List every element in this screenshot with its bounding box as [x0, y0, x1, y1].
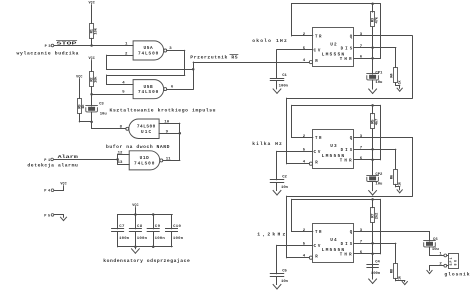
svg-text:74LS00: 74LS00	[138, 90, 159, 95]
svg-text:TR: TR	[315, 36, 322, 40]
svg-text:10u: 10u	[100, 113, 108, 117]
svg-text:CV: CV	[314, 50, 321, 54]
svg-text:10u: 10u	[375, 183, 383, 187]
svg-text:Ksztaltowanie krotkiego impuls: Ksztaltowanie krotkiego impulsu	[110, 108, 216, 114]
svg-text:11: 11	[166, 158, 171, 162]
svg-text:okolo 1Hz: okolo 1Hz	[252, 38, 287, 44]
svg-text:CV: CV	[314, 151, 321, 155]
svg-text:LM555N: LM555N	[322, 153, 345, 159]
svg-text:100n: 100n	[279, 84, 289, 88]
svg-text:TR: TR	[315, 137, 322, 141]
svg-text:1k: 1k	[81, 104, 86, 109]
svg-text:STOP: STOP	[57, 42, 78, 47]
svg-text:100n: 100n	[137, 237, 148, 241]
svg-text:THR: THR	[340, 58, 352, 62]
svg-text:74LS00: 74LS00	[134, 161, 155, 166]
svg-text:47k: 47k	[375, 16, 380, 23]
svg-text:10n: 10n	[281, 186, 289, 190]
svg-text:CP2: CP2	[375, 173, 383, 177]
svg-text:10u: 10u	[375, 81, 383, 85]
svg-text:glosnik: glosnik	[444, 271, 469, 277]
svg-text:C8: C8	[137, 225, 143, 229]
svg-text:bufor na dwoch NAND: bufor na dwoch NAND	[106, 144, 170, 150]
svg-text:wylaczanie budzika: wylaczanie budzika	[17, 50, 79, 56]
svg-text:C3: C3	[99, 103, 104, 107]
svg-text:74LS00: 74LS00	[137, 125, 156, 130]
svg-text:Przerzutnik RS: Przerzutnik RS	[190, 55, 237, 61]
svg-text:DIS: DIS	[341, 48, 353, 52]
svg-text:C4: C4	[375, 261, 380, 265]
svg-text:U2: U2	[330, 42, 337, 47]
svg-text:C5: C5	[282, 270, 287, 274]
svg-text:10k: 10k	[94, 27, 99, 34]
svg-text:kilka Hz: kilka Hz	[252, 141, 282, 147]
svg-text:R8: R8	[390, 268, 394, 273]
svg-text:U5A: U5A	[144, 46, 154, 51]
svg-text:2k2: 2k2	[375, 212, 380, 219]
svg-text:U4: U4	[330, 238, 337, 243]
svg-text:DIS: DIS	[341, 149, 353, 153]
svg-text:P1: P1	[44, 159, 50, 163]
svg-text:C1: C1	[282, 74, 287, 78]
svg-text:10k: 10k	[94, 76, 99, 83]
svg-text:SP1: SP1	[449, 257, 453, 265]
svg-text:4k7: 4k7	[375, 118, 380, 125]
svg-text:8R: 8R	[454, 260, 458, 265]
svg-text:R4: R4	[390, 73, 394, 78]
svg-text:74LS00: 74LS00	[138, 52, 159, 57]
svg-text:100n: 100n	[119, 237, 130, 241]
svg-text:C10: C10	[173, 225, 181, 229]
svg-text:LM555N: LM555N	[322, 52, 345, 58]
svg-text:R6: R6	[390, 174, 394, 179]
svg-text:10u: 10u	[432, 248, 440, 252]
svg-text:LM555N: LM555N	[322, 247, 345, 253]
svg-text:100n: 100n	[371, 272, 381, 276]
svg-text:C9: C9	[155, 225, 161, 229]
svg-text:Alarm: Alarm	[58, 155, 79, 160]
svg-text:C7: C7	[119, 225, 125, 229]
svg-text:100n: 100n	[155, 237, 166, 241]
svg-text:P4: P4	[44, 190, 51, 194]
svg-text:U1C: U1C	[141, 130, 151, 135]
svg-text:P5: P5	[44, 214, 50, 218]
svg-text:10n: 10n	[281, 280, 289, 284]
svg-text:THR: THR	[340, 254, 352, 258]
svg-text:C6: C6	[433, 238, 438, 242]
svg-text:THR: THR	[340, 160, 352, 164]
svg-text:C2: C2	[282, 176, 287, 180]
svg-text:detekcja alarmu: detekcja alarmu	[27, 163, 78, 169]
svg-text:100n: 100n	[173, 237, 184, 241]
svg-text:P3: P3	[45, 45, 51, 49]
svg-text:U3: U3	[330, 144, 337, 149]
svg-text:CP1: CP1	[375, 71, 383, 75]
svg-text:DIS: DIS	[341, 243, 353, 247]
svg-text:TR: TR	[315, 231, 322, 235]
svg-text:CV: CV	[314, 245, 321, 249]
svg-text:kondensatory odsprzegajace: kondensatory odsprzegajace	[103, 258, 190, 264]
